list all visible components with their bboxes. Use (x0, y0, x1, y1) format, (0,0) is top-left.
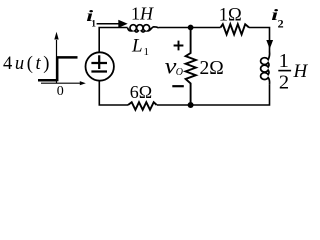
resistor 6ohm zigzag (128, 102, 157, 110)
svg-text:1: 1 (279, 50, 289, 72)
wire top right + corner down (249, 28, 270, 53)
resistor 1ohm zigzag (221, 24, 250, 34)
wire bottom left (99, 81, 128, 105)
inductor half H coil (vertical) (261, 52, 270, 85)
svg-text:H: H (293, 61, 309, 82)
svg-text:1H: 1H (131, 4, 154, 24)
svg-text:2: 2 (278, 17, 284, 31)
arrow i1 (97, 23, 119, 25)
svg-text:2Ω: 2Ω (200, 58, 224, 79)
svg-text:L: L (131, 35, 143, 56)
arrow i2 (266, 40, 273, 49)
polarity plus (174, 41, 184, 51)
wire top-left from source to corner (99, 28, 127, 53)
junction node bottom (188, 102, 194, 108)
resistor 2ohm zigzag (vertical) (186, 28, 196, 106)
svg-text:O: O (176, 67, 183, 78)
voltage source circle (86, 52, 114, 80)
svg-text:1Ω: 1Ω (219, 5, 242, 25)
svg-text:4u(t): 4u(t) (3, 54, 52, 74)
svg-text:2: 2 (279, 72, 289, 94)
inductor L1 coil (128, 25, 159, 32)
wire right bottom (157, 85, 270, 105)
wire top middle (159, 27, 221, 29)
svg-text:0: 0 (57, 84, 64, 99)
step graph vertical axis (56, 40, 58, 83)
svg-text:6Ω: 6Ω (130, 82, 152, 102)
step waveform (thick) (38, 57, 78, 81)
svg-text:1: 1 (91, 20, 96, 30)
svg-text:v: v (165, 54, 177, 79)
svg-text:1: 1 (144, 46, 150, 58)
source plus-minus symbol (91, 55, 107, 71)
step graph t-axis (41, 82, 80, 84)
junction node top (188, 25, 194, 31)
polarity minus (172, 85, 184, 87)
